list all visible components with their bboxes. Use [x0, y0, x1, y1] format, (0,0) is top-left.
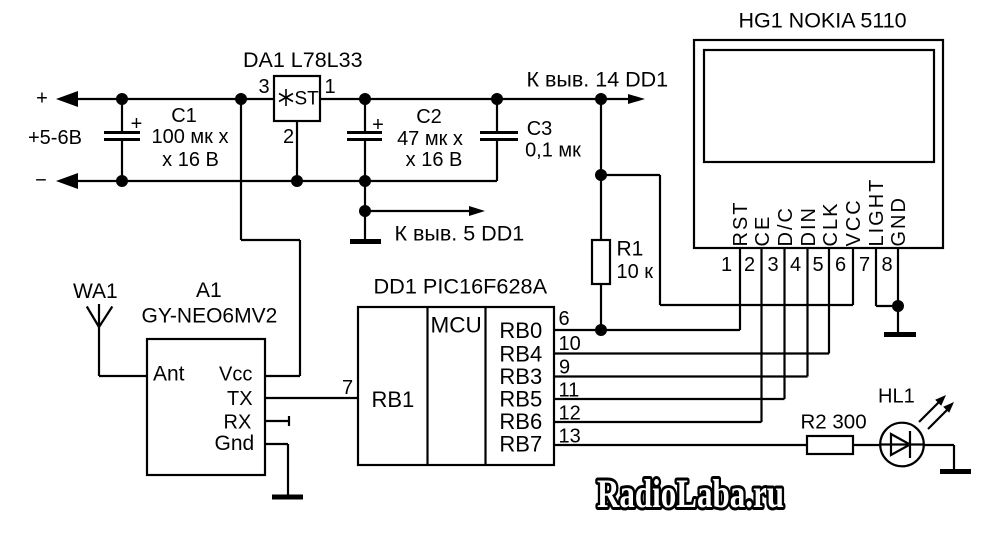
svg-text:47 мк х: 47 мк х	[397, 128, 463, 150]
svg-text:11: 11	[559, 380, 580, 402]
svg-text:RST: RST	[730, 201, 752, 247]
svg-text:R2 300: R2 300	[801, 411, 867, 434]
svg-text:RB5: RB5	[499, 387, 542, 412]
svg-text:CE: CE	[752, 215, 774, 247]
svg-text:3: 3	[767, 254, 778, 276]
svg-text:2: 2	[283, 126, 294, 148]
svg-text:8: 8	[881, 254, 892, 276]
svg-text:6: 6	[835, 254, 846, 276]
svg-text:1: 1	[324, 76, 335, 98]
svg-text:RB1: RB1	[372, 387, 415, 412]
svg-text:+: +	[131, 113, 143, 135]
svg-text:ST: ST	[295, 89, 320, 110]
svg-text:1: 1	[721, 254, 732, 276]
svg-text:К выв. 5 DD1: К выв. 5 DD1	[395, 222, 525, 246]
svg-text:DD1 PIC16F628A: DD1 PIC16F628A	[374, 274, 548, 299]
svg-text:+: +	[36, 88, 48, 110]
svg-text:DA1 L78L33: DA1 L78L33	[243, 48, 363, 72]
svg-text:−: −	[35, 170, 47, 192]
svg-text:C2: C2	[416, 106, 442, 128]
svg-text:Vcc: Vcc	[219, 364, 252, 386]
svg-text:К выв. 14 DD1: К выв. 14 DD1	[527, 68, 669, 92]
svg-text:9: 9	[559, 357, 570, 379]
svg-text:3: 3	[258, 76, 269, 98]
svg-text:RB0: RB0	[499, 318, 542, 343]
svg-text:0,1 мк: 0,1 мк	[525, 140, 581, 162]
svg-text:100 мк х: 100 мк х	[152, 126, 229, 148]
svg-text:C1: C1	[171, 105, 197, 127]
svg-text:RB4: RB4	[499, 342, 542, 367]
svg-text:A1: A1	[196, 279, 222, 302]
svg-text:7: 7	[859, 254, 870, 276]
svg-text:HG1 NOKIA 5110: HG1 NOKIA 5110	[739, 9, 907, 33]
svg-text:Gnd: Gnd	[215, 432, 255, 455]
svg-text:RX: RX	[224, 412, 252, 434]
svg-text:10 к: 10 к	[617, 261, 654, 283]
svg-text:GY-NEO6MV2: GY-NEO6MV2	[142, 305, 278, 328]
svg-text:12: 12	[559, 403, 581, 425]
svg-text:5: 5	[812, 254, 823, 276]
svg-text:HL1: HL1	[878, 386, 915, 408]
svg-text:LIGHT: LIGHT	[866, 178, 888, 247]
svg-text:7: 7	[342, 377, 353, 399]
svg-text:RadioLaba.ru: RadioLaba.ru	[597, 471, 784, 516]
svg-text:C3: C3	[527, 118, 553, 140]
svg-text:+5-6В: +5-6В	[28, 127, 82, 149]
svg-text:WA1: WA1	[73, 280, 118, 303]
svg-text:TX: TX	[227, 388, 253, 410]
svg-text:GND: GND	[888, 196, 910, 246]
svg-text:х 16 В: х 16 В	[406, 149, 463, 171]
svg-text:DIN: DIN	[798, 206, 820, 246]
svg-text:6: 6	[559, 308, 570, 330]
svg-text:RB3: RB3	[499, 364, 542, 389]
svg-text:MCU: MCU	[431, 313, 482, 338]
svg-text:Ant: Ant	[153, 363, 185, 386]
svg-text:+: +	[372, 114, 384, 136]
svg-text:RB7: RB7	[499, 432, 542, 457]
svg-text:VCC: VCC	[843, 198, 865, 246]
svg-text:R1: R1	[617, 238, 644, 261]
svg-text:4: 4	[790, 254, 801, 276]
svg-text:13: 13	[559, 426, 581, 448]
svg-text:CLK: CLK	[820, 202, 842, 247]
svg-text:2: 2	[744, 254, 755, 276]
svg-text:RB6: RB6	[499, 409, 542, 434]
svg-text:10: 10	[559, 333, 581, 355]
svg-text:D/C: D/C	[775, 206, 797, 246]
svg-text:х 16 В: х 16 В	[162, 149, 219, 171]
